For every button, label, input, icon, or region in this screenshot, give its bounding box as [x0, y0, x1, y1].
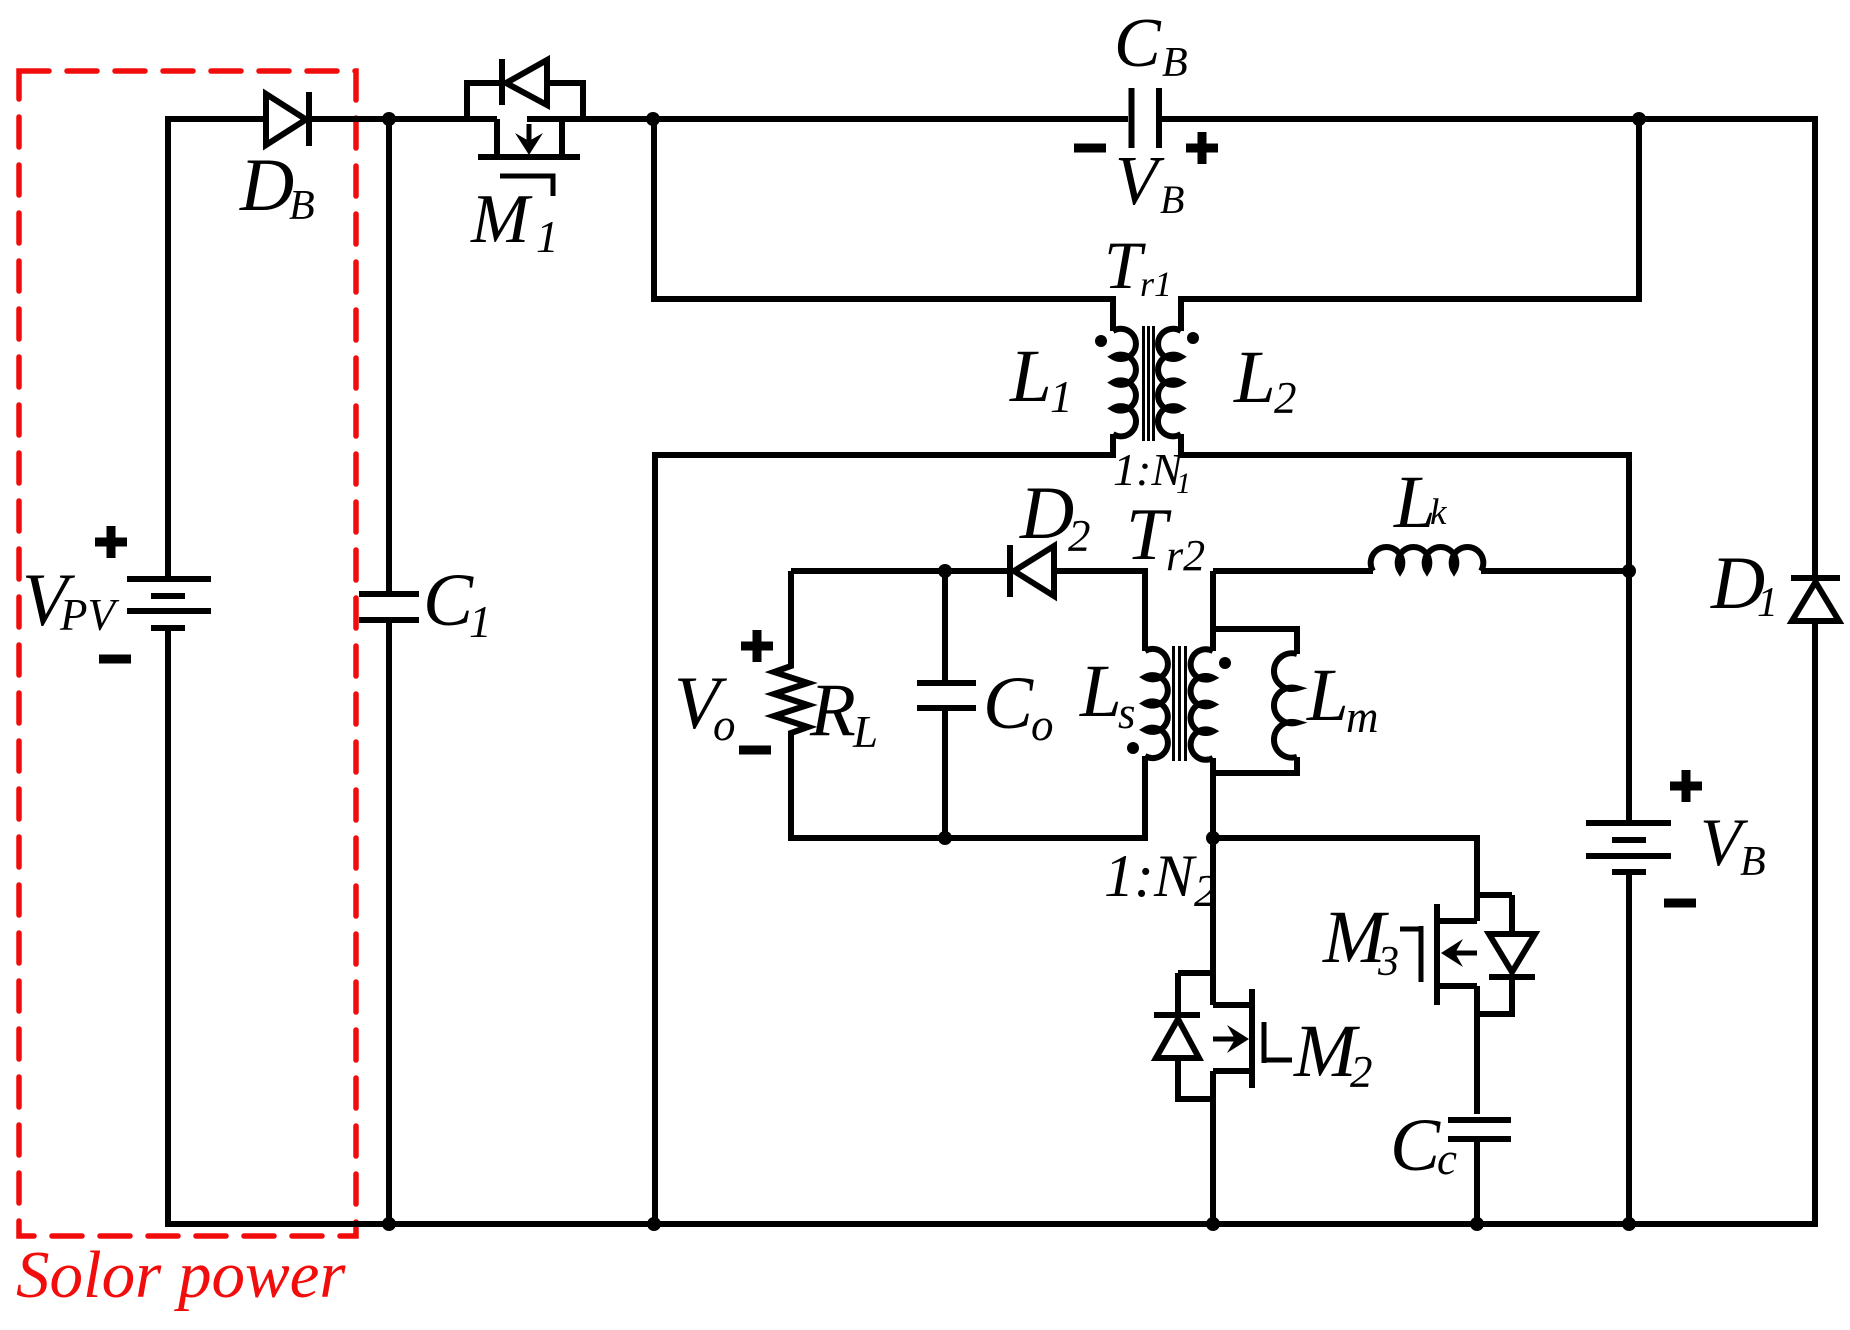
svg-text:L: L: [1233, 336, 1276, 419]
svg-text:1: 1: [1176, 467, 1191, 500]
svg-text:D: D: [1019, 472, 1074, 555]
svg-text:1: 1: [1757, 580, 1778, 626]
svg-text:1: 1: [536, 212, 559, 262]
svg-text:2: 2: [1274, 373, 1297, 423]
svg-text:o: o: [1031, 700, 1054, 750]
svg-text:D: D: [239, 144, 294, 227]
svg-text:B: B: [1162, 40, 1188, 86]
svg-text:2: 2: [1194, 865, 1217, 916]
svg-text:1:N: 1:N: [1113, 444, 1184, 495]
svg-text:r1: r1: [1140, 264, 1172, 304]
svg-text:B: B: [289, 183, 315, 229]
svg-text:PV: PV: [59, 590, 119, 640]
svg-text:r2: r2: [1166, 531, 1205, 580]
svg-text:m: m: [1346, 692, 1379, 742]
svg-text:C: C: [423, 559, 474, 642]
svg-text:s: s: [1118, 688, 1136, 738]
svg-text:V: V: [1115, 143, 1165, 220]
svg-text:1:N: 1:N: [1104, 843, 1197, 909]
svg-text:B: B: [1740, 839, 1766, 885]
svg-text:R: R: [809, 669, 856, 752]
svg-text:k: k: [1430, 492, 1447, 533]
svg-text:Solor power: Solor power: [16, 1238, 346, 1312]
svg-text:o: o: [713, 700, 736, 750]
svg-text:1: 1: [1050, 372, 1073, 422]
svg-text:M: M: [470, 181, 533, 258]
svg-text:B: B: [1160, 177, 1184, 222]
svg-text:c: c: [1437, 1134, 1457, 1184]
svg-text:3: 3: [1377, 939, 1399, 985]
svg-text:2: 2: [1068, 511, 1091, 561]
svg-text:L: L: [852, 707, 878, 757]
svg-text:L: L: [1306, 654, 1349, 737]
svg-text:C: C: [1390, 1104, 1441, 1187]
svg-text:C: C: [983, 662, 1034, 745]
svg-text:C: C: [1114, 5, 1162, 82]
svg-text:2: 2: [1350, 1047, 1373, 1097]
svg-text:1: 1: [469, 597, 492, 647]
svg-text:L: L: [1079, 650, 1122, 733]
svg-text:L: L: [1009, 335, 1052, 418]
